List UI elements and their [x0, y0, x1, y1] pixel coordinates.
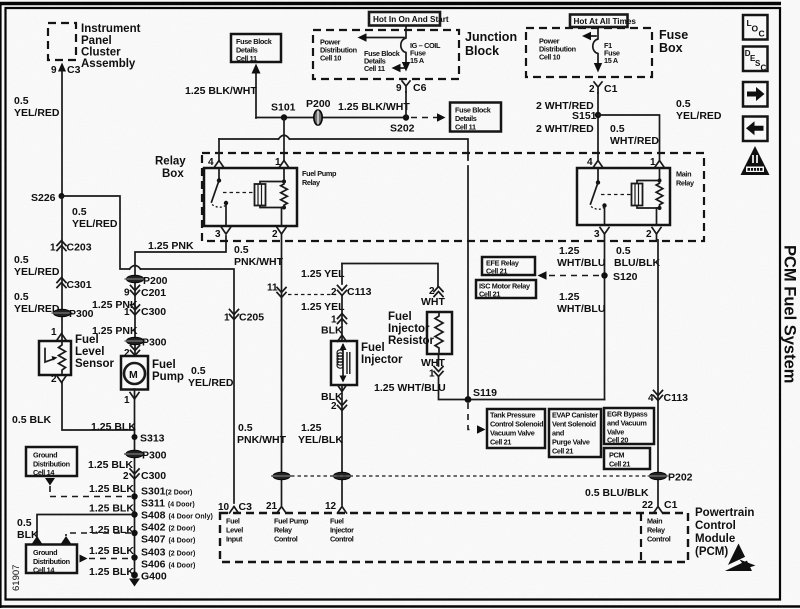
fuel level sensor: [39, 341, 71, 375]
wire pump to G400 chain: [134, 389, 136, 575]
fuel pump motor: [121, 356, 148, 390]
hot at all times box: [570, 15, 628, 28]
EGR bypass box: [604, 408, 654, 444]
splice S202: [403, 114, 409, 120]
splice S119: [465, 396, 472, 403]
wire S408 to ground box2: [37, 515, 135, 537]
connector C301: [57, 278, 66, 288]
arrow into box2 solid: [32, 536, 42, 544]
dashed arrow S202 to fuse block details box: [411, 117, 437, 119]
fuel injector feed: corner from injector column to resistor: [342, 264, 438, 288]
arrow fuse to cell11: [397, 67, 404, 69]
wire S119 column through relay box: [467, 166, 469, 399]
icon box left arrow: [743, 117, 768, 142]
ISC motor relay box: [476, 280, 536, 298]
wire S151 right to main relay pin1: [598, 115, 660, 160]
ground G400: [131, 572, 138, 579]
F1 fuse symbol: [593, 28, 598, 64]
fuel injector: [331, 341, 357, 385]
wire S226 down left column: [61, 196, 63, 341]
dashed arrow S120 to EFE relay: [546, 275, 599, 277]
ground distribution box 1: [26, 447, 77, 476]
grommet P300 pump column: [125, 337, 146, 345]
splice S313: [132, 434, 138, 440]
dashed wire S402 to box2: [66, 533, 131, 536]
wire main relay pin2 down to PCM: [657, 234, 659, 505]
wire C1 to S151 to main relay pin4: [597, 93, 599, 160]
wire cluster down to S226: [61, 71, 63, 196]
fuel injector resistor: [427, 312, 452, 354]
powertrain control module dashed box: [220, 513, 688, 562]
fuel pump relay box: [204, 168, 297, 226]
warning triangle icon: [741, 146, 770, 175]
ESD warning triangle (PCM): [722, 544, 756, 572]
icon box right arrow: [743, 82, 768, 107]
wire fp relay pin2 down to PCM pin21: [281, 234, 283, 505]
dashed wire box1 to S301: [50, 496, 131, 498]
icon box LOC: [743, 15, 768, 40]
main relay switch: [597, 168, 599, 180]
wire up-arrow to fuse block details: [255, 72, 257, 118]
splice S151: [595, 112, 601, 118]
splice S120: [601, 272, 607, 278]
wire main relay pin3 down to S120 and S119 row: [604, 234, 606, 400]
wire horizontal S101 P200 S202: [256, 117, 406, 119]
junction block dashed box: [313, 30, 459, 79]
dashed wire box2 to S403: [89, 558, 131, 560]
grommet P300 ground column: [124, 450, 145, 458]
wire relay pin3 PNK down-left to P200: [135, 236, 226, 355]
wire fp relay pin4 stub: [218, 139, 220, 160]
EFE relay box: [482, 257, 535, 275]
relay box dashed enclosure: [202, 153, 704, 241]
arrow into box2 dashed branch: [61, 536, 71, 544]
main relay box: [577, 168, 670, 225]
wire resistor down to S119: [439, 354, 605, 400]
fp relay switch: [218, 168, 220, 178]
grommet P300 left: [52, 309, 73, 317]
fuse block details box (middle): [450, 103, 501, 132]
dashed arrow S119 to tank pressure box: [468, 403, 473, 430]
grommet P200 (bulkhead): [314, 110, 322, 125]
hot in on and start box: [369, 12, 440, 26]
wire S101 down to fp relay pin1: [283, 118, 285, 161]
main relay mechanical link dashed: [601, 194, 632, 196]
icon box DESC: [743, 47, 768, 73]
arrow F1 fuse to power distribution: [588, 35, 596, 37]
injector bottom pin: [338, 385, 347, 392]
fp relay coil: [283, 168, 285, 182]
dashed link C113 pin11 to pin2: [288, 294, 336, 296]
tank pressure control solenoid box: [487, 409, 545, 448]
fp relay mechanical link dashed: [223, 192, 255, 194]
page outer border: [0, 2, 781, 5]
arrow from box1 down: [45, 478, 55, 486]
grommet P200 pump column: [125, 275, 146, 283]
EVAP canister box: [549, 409, 601, 457]
wire sensor to S313: [62, 382, 134, 430]
PCM cell21 box: [604, 448, 650, 469]
wire long horizontal y139 pin4 to S119 column with hop: [219, 138, 279, 140]
wire injector down to PCM pin12: [341, 385, 343, 505]
wire S226 branch right/down to C205 column: [62, 196, 235, 503]
wire to injector: [341, 296, 343, 341]
fuse box dashed box (top right): [526, 28, 652, 77]
grommet P202 row: [271, 472, 292, 480]
main relay coil: [659, 168, 661, 181]
fuse block details box (top left): [231, 34, 281, 62]
ground distribution box 2: [26, 545, 77, 574]
arrow fuse to power distribution: [363, 37, 404, 39]
arrow out of box2 right: [80, 555, 88, 563]
IG-COIL fuse symbol: [401, 26, 406, 63]
instrument panel cluster assembly dashed box: [48, 23, 76, 60]
wire C6 to S202: [405, 92, 407, 117]
